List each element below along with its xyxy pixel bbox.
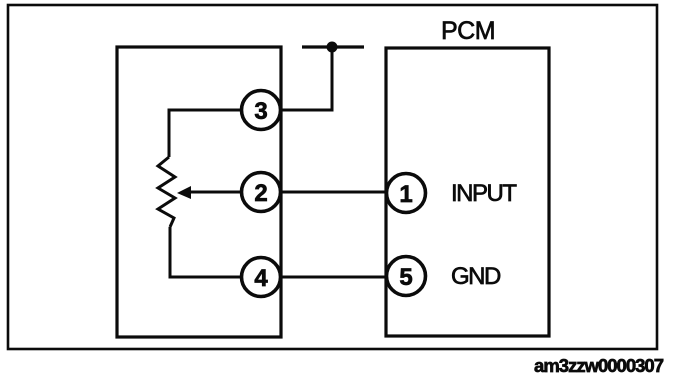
wiper arrow from pin 2 <box>188 191 240 194</box>
pin 5 <box>387 257 426 296</box>
svg-text:PCM: PCM <box>441 17 495 45</box>
node: supply junction dot <box>327 42 338 53</box>
wire: potentiometer bottom to pin4 <box>170 227 241 277</box>
svg-text:INPUT: INPUT <box>451 180 517 207</box>
svg-text:2: 2 <box>254 180 267 207</box>
pin 4 <box>242 258 281 297</box>
wire: pin3 to supply junction <box>280 48 332 110</box>
wire: supply bar <box>302 45 364 48</box>
svg-text:3: 3 <box>254 98 267 125</box>
wire: pin3 to potentiometer top <box>169 110 242 157</box>
svg-text:am3zzw0000307: am3zzw0000307 <box>534 355 664 376</box>
wire: pin4 to pin5 <box>280 276 387 279</box>
pin 2 <box>242 173 281 212</box>
potentiometer VR1 zigzag element <box>158 157 175 227</box>
pin 3 <box>242 91 281 130</box>
svg-text:4: 4 <box>254 265 268 292</box>
svg-text:GND: GND <box>451 263 501 290</box>
sensor box (potentiometer enclosure) <box>117 47 281 337</box>
pin 1 <box>387 174 426 213</box>
PCM box U1 <box>386 48 549 336</box>
svg-text:1: 1 <box>399 181 412 208</box>
wire: pin2 to pin1 <box>280 191 387 194</box>
svg-text:5: 5 <box>399 264 412 291</box>
